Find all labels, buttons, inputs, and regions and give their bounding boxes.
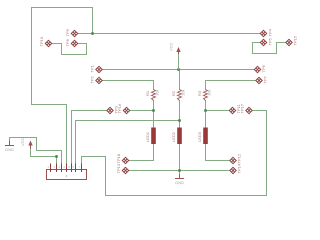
svg-text:R2: R2 [171,90,176,96]
svg-text:10k: 10k [181,90,186,96]
svg-text:TP13: TP13 [116,163,121,173]
svg-text:VCC: VCC [169,42,174,51]
svg-text:TP18: TP18 [116,153,121,163]
svg-text:VCC: VCC [20,137,25,146]
svg-text:10k: 10k [155,90,160,96]
svg-text:R3: R3 [197,90,202,96]
svg-text:TP6: TP6 [261,64,266,72]
svg-text:TP14: TP14 [237,163,242,173]
svg-text:TP1: TP1 [90,64,95,72]
svg-text:TP17: TP17 [240,103,245,113]
svg-text:TP15: TP15 [293,35,298,45]
svg-text:10k: 10k [207,90,212,96]
svg-text:GND: GND [175,180,184,185]
svg-text:TP16: TP16 [117,103,122,113]
svg-text:TP10: TP10 [39,36,44,46]
svg-text:TP5: TP5 [268,37,273,45]
svg-text:TP9: TP9 [65,28,70,36]
svg-text:GND: GND [5,147,14,152]
svg-text:TP4: TP4 [268,28,273,36]
svg-text:TP2: TP2 [90,75,95,83]
svg-text:TP8: TP8 [65,38,70,46]
svg-text:TP12: TP12 [237,153,242,163]
svg-text:LED2: LED2 [171,131,176,142]
svg-text:LED1: LED1 [145,131,150,142]
svg-text:TP7: TP7 [263,75,268,83]
svg-text:R1: R1 [145,90,150,96]
svg-text:LED3: LED3 [197,131,202,142]
